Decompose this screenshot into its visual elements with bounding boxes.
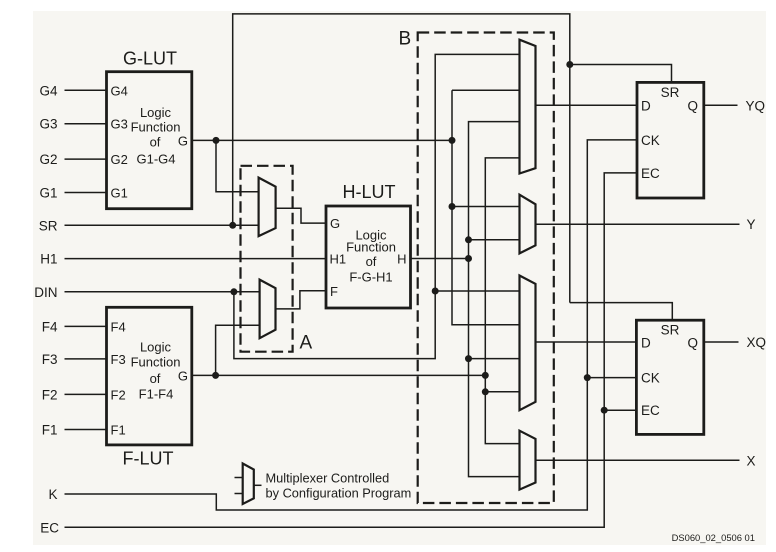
wire F4 xyxy=(65,325,107,327)
dashed box A xyxy=(241,166,293,352)
svg-text:A: A xyxy=(300,333,313,354)
svg-text:of: of xyxy=(366,254,377,269)
legend mux symbol xyxy=(243,464,254,505)
wire G' to mux B2 input xyxy=(452,206,520,208)
wire DIN to mux B3 input xyxy=(435,290,519,292)
svg-text:G1: G1 xyxy=(39,186,57,201)
node G' to mux B2 xyxy=(449,203,456,210)
mux B4 xyxy=(520,431,536,490)
wire SR to mux A1 xyxy=(65,224,259,226)
wire H-LUT output H' xyxy=(411,258,469,260)
wire DIN down and right into box B xyxy=(234,54,520,358)
svg-text:F: F xyxy=(330,284,338,299)
wire mux A2 output to H-LUT F input xyxy=(276,291,327,309)
wire H' vertical net in box B xyxy=(469,122,520,477)
svg-text:G1-G4: G1-G4 xyxy=(136,152,175,167)
svg-text:F-LUT: F-LUT xyxy=(123,449,174,469)
wire mux A1 output to H-LUT G input xyxy=(276,208,326,223)
node EC to FF2 xyxy=(601,407,608,414)
node H' to mux B2 xyxy=(465,236,472,243)
svg-text:D: D xyxy=(641,335,651,350)
wire SR into FF1 xyxy=(570,65,672,83)
wire FF2 Q output xyxy=(704,341,739,343)
svg-text:H1: H1 xyxy=(330,252,347,267)
svg-text:G: G xyxy=(178,368,188,383)
svg-text:F4: F4 xyxy=(42,319,58,334)
svg-text:D: D xyxy=(641,98,651,113)
svg-text:of: of xyxy=(150,371,161,386)
node H' into vertical xyxy=(465,255,472,262)
wire CK into FF2 xyxy=(587,377,636,379)
svg-text:F4: F4 xyxy=(111,319,126,334)
svg-text:SR: SR xyxy=(39,218,58,233)
wire G3 xyxy=(65,123,107,125)
wire F' to mux B3 input xyxy=(485,391,519,393)
wire F1 xyxy=(65,429,107,431)
node DIN junction xyxy=(230,288,237,295)
flip-flop FF2 box xyxy=(636,320,703,434)
svg-text:G4: G4 xyxy=(111,83,128,98)
wire F' up to mux A2 xyxy=(216,325,260,375)
svg-text:EC: EC xyxy=(641,166,660,181)
svg-text:of: of xyxy=(150,135,161,150)
wire SR into FF2 xyxy=(570,303,673,321)
node F' to mux B3 xyxy=(482,388,489,395)
svg-text:H-LUT: H-LUT xyxy=(343,182,396,202)
svg-text:Function: Function xyxy=(346,240,396,255)
svg-text:G: G xyxy=(178,133,188,148)
svg-text:G1: G1 xyxy=(111,186,128,201)
wire SR up over top to flip-flops xyxy=(233,14,570,303)
svg-text:H1: H1 xyxy=(40,252,57,267)
flip-flop FF1 box xyxy=(637,82,704,198)
mux B1 xyxy=(520,40,536,174)
svg-text:G: G xyxy=(330,216,340,231)
svg-text:F1: F1 xyxy=(42,423,58,438)
svg-text:X: X xyxy=(747,453,756,468)
svg-text:F2: F2 xyxy=(42,387,58,402)
svg-text:EC: EC xyxy=(40,520,59,535)
node H' to mux B3 xyxy=(465,355,472,362)
wire G-LUT output G xyxy=(192,139,452,141)
wire H1 xyxy=(65,258,327,260)
svg-text:Function: Function xyxy=(131,355,181,370)
svg-text:F3: F3 xyxy=(42,352,58,367)
svg-text:DIN: DIN xyxy=(34,285,57,300)
wire F-LUT output F' xyxy=(192,374,486,376)
node G' feed xyxy=(449,137,456,144)
svg-text:CK: CK xyxy=(641,371,660,386)
H-LUT box xyxy=(326,206,411,308)
wire K clock to flip-flop CK pins xyxy=(65,140,638,510)
wire mux B1 output to FF1 D xyxy=(536,104,638,106)
wire F2 xyxy=(65,393,107,395)
mux A1 xyxy=(259,178,276,237)
wire G' vertical net in box B xyxy=(452,90,520,325)
wire F' vertical net in box B xyxy=(485,158,519,444)
svg-text:H: H xyxy=(397,252,406,267)
svg-text:B: B xyxy=(399,29,412,50)
svg-text:G2: G2 xyxy=(111,152,128,167)
svg-text:Q: Q xyxy=(687,98,698,113)
F-LUT box xyxy=(107,307,192,445)
svg-text:G-LUT: G-LUT xyxy=(123,49,177,69)
wire FF1 Q output xyxy=(704,104,738,106)
svg-text:F3: F3 xyxy=(111,352,126,367)
svg-text:F-G-H1: F-G-H1 xyxy=(349,269,392,284)
svg-text:Q: Q xyxy=(687,335,698,350)
G-LUT box xyxy=(107,72,192,209)
svg-text:G2: G2 xyxy=(39,152,57,167)
node G' branch xyxy=(213,137,220,144)
svg-text:DS060_02_0506 01: DS060_02_0506 01 xyxy=(672,532,755,543)
svg-text:F1-F4: F1-F4 xyxy=(139,387,174,402)
dashed box B xyxy=(418,33,554,504)
node SR junction xyxy=(229,222,236,229)
node SR to YQ flip-flop xyxy=(566,61,573,68)
svg-text:by Configuration Program: by Configuration Program xyxy=(266,486,412,501)
svg-text:Y: Y xyxy=(747,217,756,232)
node DIN to mux B3 xyxy=(432,288,439,295)
mux B2 xyxy=(520,195,536,254)
wire G' down to mux A1 xyxy=(216,140,259,191)
svg-text:XQ: XQ xyxy=(747,335,767,350)
svg-text:Function: Function xyxy=(131,120,181,135)
svg-text:Logic: Logic xyxy=(140,340,172,355)
svg-text:SR: SR xyxy=(661,85,680,100)
mux A2 xyxy=(260,280,276,339)
node K to FF2 CK xyxy=(584,374,591,381)
wire G2 xyxy=(65,158,107,160)
wire EC to flip-flop EC pins xyxy=(65,173,638,527)
wire G4 xyxy=(65,89,107,91)
wire H' to mux B2 input xyxy=(469,239,520,241)
svg-text:K: K xyxy=(48,487,57,502)
svg-text:EC: EC xyxy=(641,403,660,418)
svg-text:F1: F1 xyxy=(111,423,126,438)
wire mux B2 output Y xyxy=(536,223,740,225)
svg-text:F2: F2 xyxy=(111,387,126,402)
wire G' to mux B1 xyxy=(452,89,520,91)
svg-text:Multiplexer Controlled: Multiplexer Controlled xyxy=(266,470,390,485)
svg-text:CK: CK xyxy=(641,133,660,148)
svg-text:Logic: Logic xyxy=(140,105,172,120)
wire EC into FF2 xyxy=(604,409,636,411)
svg-text:SR: SR xyxy=(661,323,680,338)
wire mux B4 output X xyxy=(536,459,740,461)
node F' branch xyxy=(212,372,219,379)
svg-text:YQ: YQ xyxy=(746,98,766,113)
wire F3 xyxy=(65,358,107,360)
node F' feed xyxy=(482,372,489,379)
svg-text:G3: G3 xyxy=(111,117,128,132)
mux B3 xyxy=(520,276,536,411)
svg-text:G3: G3 xyxy=(39,117,57,132)
wire DIN to mux A2 xyxy=(65,291,260,293)
wire mux B3 output to FF2 D xyxy=(536,341,637,343)
wire G1 xyxy=(65,192,107,194)
wire H' to mux B3 input xyxy=(469,358,520,360)
svg-text:G4: G4 xyxy=(39,83,58,98)
